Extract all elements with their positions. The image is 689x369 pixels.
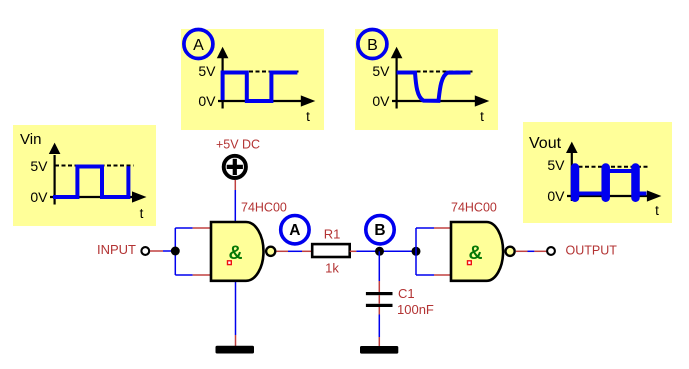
svg-text:Vin: Vin (20, 131, 41, 148)
svg-text:5V: 5V (30, 158, 48, 174)
junction dot at B (375, 247, 384, 256)
gate1 bottom wire red (235, 335, 237, 346)
wire to gate2 bottom input blue (416, 274, 434, 276)
B panel: horizontal axis (392, 100, 477, 102)
wire to gate1 bottom input blue (175, 274, 192, 276)
input junction dot (171, 247, 180, 256)
A panel: waveform at node A (223, 73, 298, 102)
ground under capacitor (360, 346, 398, 354)
Vin panel: vertical axis arrowhead (49, 143, 61, 154)
capacitor branch wire blue (378, 251, 380, 281)
waveform panel Vout background (523, 122, 672, 223)
wire gate1 output blue (288, 250, 302, 252)
capacitor C1 top plate (366, 292, 393, 295)
svg-text:C1: C1 (398, 286, 415, 301)
svg-text:Vout: Vout (529, 135, 562, 152)
resistor R1 (312, 244, 350, 257)
waveform panel B background (355, 29, 498, 130)
A panel: node circle A (184, 30, 213, 59)
capacitor below red (378, 307, 380, 315)
gate1 bottom wire blue (235, 281, 237, 335)
A panel: horizontal axis (218, 100, 303, 102)
svg-text:0V: 0V (198, 93, 216, 109)
Vout panel: horizontal axis (567, 195, 649, 197)
svg-text:5V: 5V (198, 63, 216, 79)
A panel: dashed 5V level (223, 71, 300, 73)
Vout panel: oscillation burst bars (571, 168, 580, 198)
svg-text:B: B (367, 37, 378, 54)
capacitor below blue (378, 315, 380, 338)
svg-text:0V: 0V (30, 189, 48, 205)
Vout panel: dashed 5V level (572, 166, 650, 168)
svg-text:INPUT: INPUT (97, 242, 136, 257)
capacitor branch wire red (378, 281, 380, 292)
Vin panel: horizontal axis (50, 196, 135, 198)
B panel: waveform at node B with RC slopes (397, 73, 471, 101)
output terminal (547, 247, 555, 255)
waveform panel Vin background (13, 125, 156, 226)
wire resistor right red (350, 250, 357, 252)
node circle A (281, 216, 309, 244)
Vout panel: waveform horizontals (575, 192, 606, 196)
B panel: vertical axis (396, 58, 398, 109)
wire supply to gate1 blue part (234, 190, 236, 222)
node circle B (366, 216, 394, 244)
wire input terminal red (150, 250, 163, 252)
power supply symbol (224, 156, 246, 178)
NAND gate U1 body 74HC00 (211, 222, 264, 281)
svg-text:74HC00: 74HC00 (241, 201, 287, 215)
Vout panel: vertical axis (571, 153, 573, 201)
wire to gate2 top input blue (416, 227, 434, 229)
NAND gate U2 body 74HC00 (451, 222, 503, 281)
svg-text:B: B (374, 222, 385, 239)
svg-text:t: t (306, 109, 310, 124)
B panel: node circle B (358, 30, 387, 59)
wire gate2 output blue (528, 250, 535, 252)
wire to output terminal red (534, 250, 546, 252)
wire to gate1 top input red (193, 227, 210, 229)
svg-text:t: t (480, 109, 484, 124)
gate2 state square (468, 261, 472, 265)
B panel: vertical axis arrowhead (391, 47, 403, 58)
wire to gate2 bottom input red (434, 274, 450, 276)
junction dot at gate2 branch (412, 247, 421, 256)
capacitor C1 bottom plate (366, 304, 393, 307)
Vout panel: vertical axis arrowhead (566, 142, 578, 153)
svg-text:R1: R1 (324, 226, 341, 241)
wire to gate1 bottom input red (193, 274, 210, 276)
A panel: vertical axis arrowhead (217, 47, 229, 58)
wire to gate1 top input blue (175, 227, 192, 229)
Vin panel: horizontal axis arrowhead (132, 191, 147, 202)
Vout panel: horizontal axis arrowhead (647, 190, 662, 201)
wire input blue (163, 250, 175, 252)
svg-text:5V: 5V (372, 63, 390, 79)
input fork vertical wire (174, 228, 176, 275)
wire resistor to node B blue (356, 250, 416, 252)
wire supply to gate1 red part (234, 180, 236, 190)
input terminal (141, 247, 149, 255)
svg-text:A: A (193, 37, 204, 54)
svg-text:0V: 0V (547, 188, 565, 204)
gate2 output bubble (506, 247, 515, 256)
waveform panel A background (181, 29, 324, 130)
B panel: dashed 5V level (397, 71, 474, 73)
capacitor to ground red (378, 337, 380, 346)
svg-text:t: t (655, 203, 659, 218)
wire gate2 output red (516, 250, 528, 252)
svg-text:OUTPUT: OUTPUT (566, 244, 618, 258)
capacitor inner wire red (378, 295, 380, 304)
svg-text:5V: 5V (547, 157, 565, 173)
wire to resistor red (302, 250, 312, 252)
Vin panel: input square waveform (53, 166, 128, 197)
Vin panel: dashed 5V level (55, 165, 134, 167)
svg-text:100nF: 100nF (397, 302, 434, 317)
svg-text:74HC00: 74HC00 (451, 201, 497, 215)
svg-text:+5V DC: +5V DC (216, 138, 260, 152)
svg-text:1k: 1k (325, 261, 339, 276)
ground under gate1 (216, 346, 255, 354)
wire gate1 output red (277, 250, 289, 252)
gate1 state square (228, 261, 232, 265)
B panel: horizontal axis arrowhead (475, 95, 490, 106)
svg-text:t: t (140, 206, 144, 221)
svg-text:0V: 0V (372, 93, 390, 109)
Vin panel: vertical axis (53, 155, 55, 205)
svg-text:A: A (289, 222, 300, 239)
gate2 fork vertical wire (415, 228, 417, 275)
wire to gate2 top input red (434, 227, 450, 229)
A panel: vertical axis (222, 58, 224, 109)
gate1 output bubble (266, 247, 275, 256)
A panel: horizontal axis arrowhead (301, 95, 316, 106)
